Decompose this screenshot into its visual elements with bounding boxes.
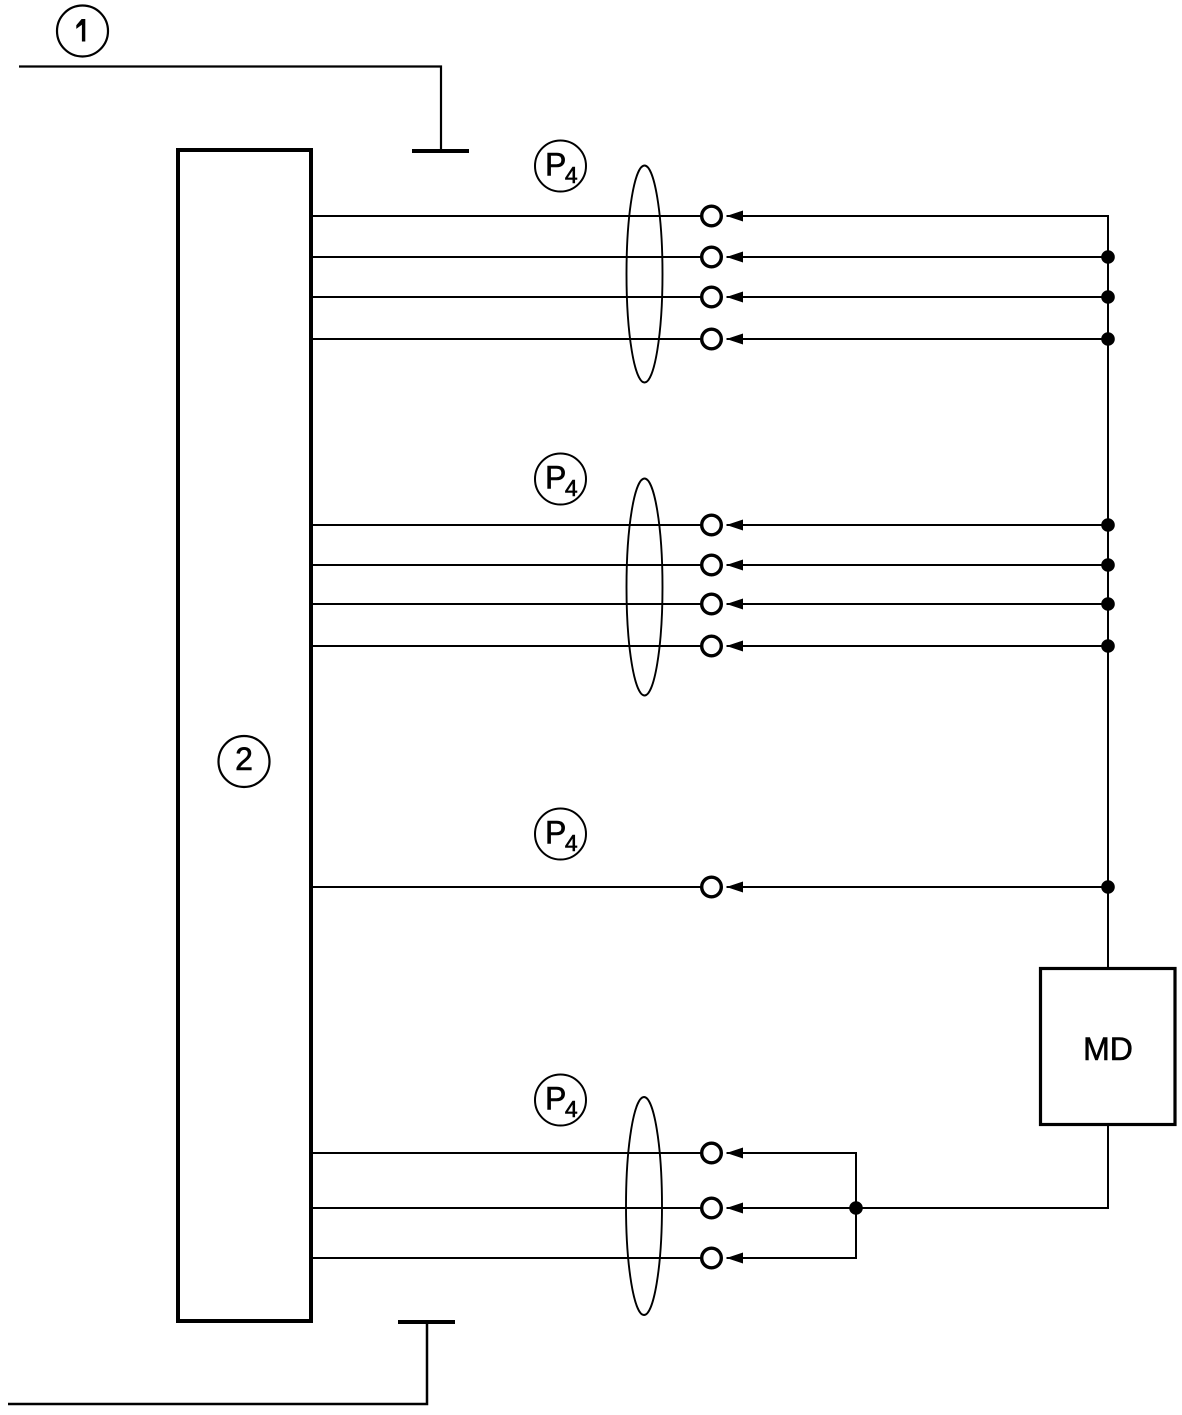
junction dot g4 line2 [849,1201,863,1215]
pin circle g4 line1 [702,1143,722,1163]
junction dot g2 line3 [1101,597,1115,611]
cable ellipse group2 [627,479,663,696]
pin circle g1 line3 [702,287,722,307]
pin circle g4 line3 [702,1248,722,1268]
svg-text:MD: MD [1083,1031,1133,1067]
junction dot g2 line2 [1101,558,1115,572]
pin circle g2 line4 [702,636,722,656]
wire g2 line3 right [727,603,1109,605]
arrowhead g4 line1 [727,1148,744,1159]
arrowhead g1 line4 [727,334,744,345]
wire g3 line1 left [313,886,701,888]
wire g1 line2 left [313,256,701,258]
arrowhead g4 line2 [727,1203,744,1214]
wire g2 line2 right [727,564,1109,566]
wire g1 line1 right [727,215,1110,217]
junction dot g3 line1 [1101,880,1115,894]
junction dot g1 line4 [1101,332,1115,346]
connector P4 label group3 [535,809,586,860]
terminal bottom bar [398,1320,455,1324]
block 2 [178,150,311,1321]
arrowhead g4 line3 [727,1253,744,1264]
wire g4 line3 right [727,1257,858,1259]
cable ellipse group1 [627,166,663,383]
wire g4 line3 left [313,1257,701,1259]
junction dot g1 line2 [1101,250,1115,264]
arrowhead g2 line1 [727,520,744,531]
wire g2 line3 left [313,603,701,605]
pin circle g1 line2 [702,247,722,267]
pin circle g1 line4 [702,329,722,349]
wire g2 line1 right [727,524,1109,526]
wire g4 connector vertical [855,1153,857,1258]
cable ellipse group4 [626,1097,662,1315]
wire bottom lead [8,1324,427,1404]
arrowhead g1 line3 [727,292,744,303]
arrowhead g3 line1 [727,882,744,893]
connector P4 label group2 [535,454,586,505]
wire g1 line4 right [727,338,1109,340]
wire g1 line1 left [313,215,701,217]
pin circle g2 line1 [702,515,722,535]
block MD [1041,969,1176,1125]
bus wire right vertical [1107,215,1109,967]
wire g1 line2 right [727,256,1109,258]
wire g2 line4 left [313,645,701,647]
wire g1 line3 right [727,296,1109,298]
arrowhead g2 line2 [727,560,744,571]
arrowhead g1 line1 [727,211,744,222]
wire g1 line4 left [313,338,701,340]
wire g1 line3 left [313,296,701,298]
pin circle g4 line2 [702,1198,722,1218]
arrowhead g1 line2 [727,252,744,263]
pin circle g2 line3 [702,594,722,614]
arrowhead g2 line4 [727,641,744,652]
terminal top bar [412,149,469,153]
wire g4 line2 right [727,1207,857,1209]
pin circle g1 line1 [702,206,722,226]
wire g2 line1 left [313,524,701,526]
wire g4 line2 left [313,1207,701,1209]
pin circle g3 line1 [702,877,722,897]
node 1 label [57,6,108,57]
arrowhead g2 line3 [727,599,744,610]
wire g2 line2 left [313,564,701,566]
junction dot g2 line4 [1101,639,1115,653]
wire top lead [19,67,441,150]
wire g4 line1 left [313,1152,701,1154]
wire g3 line1 right [727,886,1109,888]
svg-text:2: 2 [235,741,253,777]
junction dot g1 line3 [1101,290,1115,304]
junction dot g2 line1 [1101,518,1115,532]
connector P4 label group4 [535,1075,586,1126]
pin circle g2 line2 [702,555,722,575]
wire g2 line4 right [727,645,1109,647]
wire MD bottom to group4 [856,1126,1108,1208]
node 2 label [219,736,270,787]
connector P4 label group1 [535,141,586,192]
wire g4 line1 right [727,1152,858,1154]
